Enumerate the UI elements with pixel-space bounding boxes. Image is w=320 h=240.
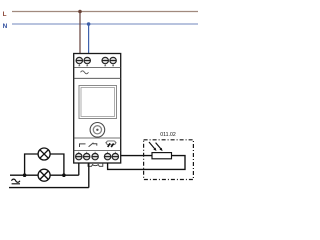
wire N neutral bus (12, 23, 198, 25)
junction L (78, 10, 82, 14)
photoresistor R1 (152, 153, 172, 159)
junction lamp right (62, 173, 66, 177)
terminal screw A1 (76, 57, 82, 66)
AC source symbol bar (12, 183, 20, 185)
U1 icon switch blade (89, 143, 94, 147)
U1 divider above bottom terminals (74, 150, 121, 152)
time switch U1 body (74, 54, 121, 164)
U1 LCD inner frame (81, 88, 115, 117)
terminal screw B2 (112, 152, 118, 160)
terminal screw 2 (84, 152, 90, 160)
U1 divider above LCD section (74, 77, 121, 79)
svg-text:011.02: 011.02 (160, 132, 176, 138)
lamp E1 (38, 148, 50, 160)
U1 icon lamp lead (115, 142, 116, 144)
svg-text:L: L (3, 11, 7, 18)
svg-text:N: N (3, 23, 8, 30)
lamp E2 (38, 169, 50, 181)
wire sensor return (108, 156, 185, 170)
terminal screw 3 (92, 152, 98, 160)
wire L phase bus (12, 11, 198, 13)
junction N (87, 22, 91, 26)
wire source return bus (9, 187, 89, 189)
wire source to lamps (10, 174, 79, 176)
terminal screw 1 (76, 152, 82, 160)
wire terminal 2 drop (88, 163, 90, 188)
U1 knob outer ring (90, 123, 105, 138)
U1 knob inner ring (93, 126, 101, 134)
wire L drop to terminal A1 (79, 12, 81, 55)
terminal screw A2 (84, 57, 90, 66)
U1 DIN rail clip (88, 163, 103, 166)
U1 knob center dot (96, 129, 98, 131)
wire sensor feed (121, 155, 152, 157)
terminal screw T2 (102, 57, 108, 66)
U1 icon lamp ray 2 (111, 143, 113, 147)
U1 AC symbol ~ (81, 71, 89, 74)
wire N drop to terminal A2 (88, 24, 90, 54)
U1 icon lamp ray 1 (108, 143, 110, 147)
AC source symbol tilde (12, 179, 20, 182)
terminal screw B1 (104, 152, 110, 160)
terminal screw T1 (110, 57, 116, 66)
U1 icon fixed contact (80, 144, 86, 147)
U1 divider below top terminals (74, 67, 121, 69)
U1 LCD outer frame (79, 86, 117, 119)
sensor box 011.02 (144, 140, 194, 180)
wire top lamp branch (25, 154, 64, 175)
U1 divider above icon strip (74, 137, 121, 139)
junction lamp left (23, 173, 27, 177)
U1 icon lamp outline (107, 141, 116, 145)
light arrow 2 (156, 143, 163, 152)
U1 icon moving contact (93, 144, 97, 146)
wire terminal 1 drop (78, 163, 80, 176)
light arrow 1 (149, 142, 157, 151)
